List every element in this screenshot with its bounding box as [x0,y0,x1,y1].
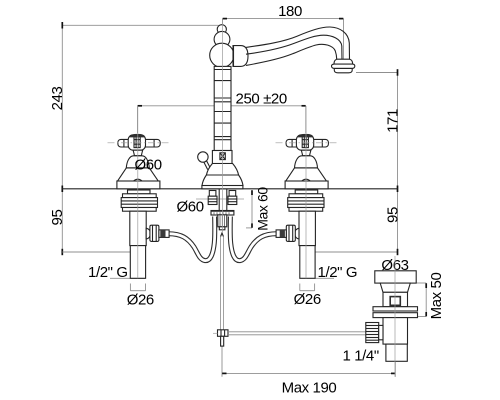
spout collar [233,46,248,67]
drain neck [380,283,410,292]
hose ferrule [159,230,169,238]
handle top cap [299,134,313,136]
dimension 250 +-20 [138,106,306,133]
handle base band [285,181,328,189]
spout arm lower contour [246,44,337,65]
left hose [169,217,215,261]
right below-deck stack [276,190,324,278]
dimension Max 60 [246,190,252,228]
handle base band [117,181,160,189]
column base bell [202,164,243,189]
svg-text:Max 190: Max 190 [282,380,337,397]
rod joint block [218,330,229,346]
left below-deck stack [121,190,169,278]
handle cross bar [118,139,160,147]
svg-text:171: 171 [384,109,401,133]
handle cross bar [286,139,328,147]
below-deck center: tube [219,189,227,211]
svg-text:Ø60: Ø60 [177,199,204,216]
leader O60 center [196,198,244,200]
svg-text:Max 50: Max 50 [428,273,445,320]
ribbed nut [366,323,379,343]
svg-text:180: 180 [278,3,302,20]
handle top cap [130,134,144,136]
centerline drain [394,256,396,377]
svg-text:Ø60: Ø60 [135,157,162,174]
spout column main ball [210,43,234,67]
spout arm middle contour [246,35,342,59]
svg-text:250 ±20: 250 ±20 [236,91,287,108]
drain body [383,292,408,306]
handle knurl band [134,136,140,147]
shank [130,211,146,245]
dimension 180 [223,19,344,73]
drain assembly [366,271,418,362]
svg-text:1 1/4": 1 1/4" [343,348,379,365]
handle cone [286,168,327,181]
column escutcheon block [212,151,232,164]
spout arm upper contour [246,27,350,59]
spout outlet bell [332,59,355,73]
connector dome [295,228,299,239]
center bracket plate [211,211,234,216]
svg-text:95: 95 [384,207,401,223]
drain lower body [383,318,408,345]
connector hex nut [150,225,159,241]
spout column body [214,66,231,150]
overflow hole [390,297,400,306]
dimension Max 190 [222,347,395,377]
svg-text:1/2" G: 1/2" G [318,264,358,281]
dimension 171 / 95 right [306,69,398,255]
centerline left handle [137,106,139,278]
deck line [62,188,397,190]
center threaded stud [218,215,227,230]
centerline column [222,24,224,232]
pop-up vertical rod [221,233,224,330]
left handle group [117,134,160,188]
svg-text:Max 60: Max 60 [254,187,270,231]
handle dome [126,156,149,168]
svg-text:1/2" G: 1/2" G [88,264,128,281]
flange disc 2 [373,313,418,318]
below-deck left stud+nut [208,191,217,205]
svg-text:243: 243 [49,87,66,111]
svg-text:95: 95 [49,210,66,226]
centerline right handle [305,106,307,278]
handle knurl band [302,136,308,147]
right handle group [285,134,328,188]
dimension O26 right bracket [300,284,315,291]
right hose [230,217,276,261]
spout column finial mid ball [214,31,230,47]
hose ferrule [276,230,286,238]
dimension 95 left bottom leader [62,251,138,253]
handle cone [118,168,159,181]
svg-text:Ø26: Ø26 [294,291,321,308]
screw arc [134,179,143,181]
handle stem [301,150,311,156]
connector hex nut [286,225,295,241]
centerline pop-up rod lower [213,332,218,334]
below-deck right stud+nut [228,191,237,205]
pop-up knob [198,152,211,170]
svg-text:Ø26: Ø26 [127,292,154,309]
handle hub [296,135,313,150]
handle dome [295,156,318,168]
tailpiece [386,344,407,361]
handle stem [133,150,143,156]
tube [300,246,315,279]
dimension O26 left bracket [130,284,145,291]
horizontal linkage rod [228,332,366,335]
flange disc 1 [373,307,418,311]
spout column finial small ball [217,25,226,34]
shank [299,211,315,245]
leader 1/2G left [110,277,146,279]
dimension 243 vertical line [62,22,218,255]
screw arc [302,179,311,181]
tube [130,246,145,279]
handle hub [128,135,145,150]
dimension Max 50 [416,283,426,317]
nut collar [379,325,383,339]
leader 1/2G right [315,277,334,279]
drain cap [375,271,416,283]
connector dome [146,228,150,239]
